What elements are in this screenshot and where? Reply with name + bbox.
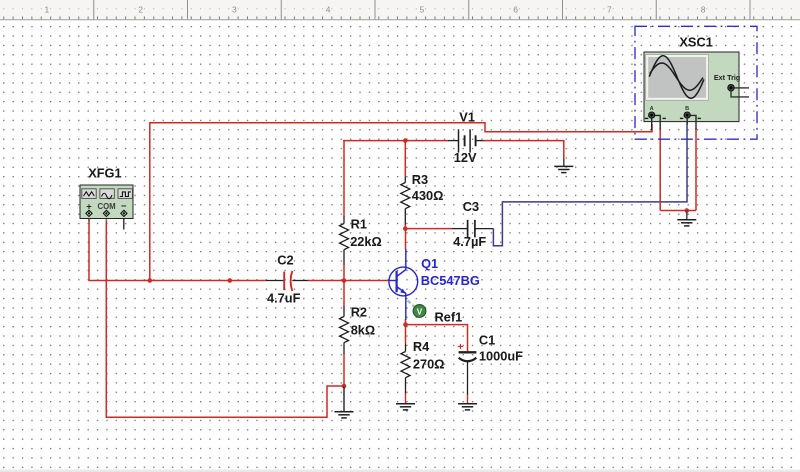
wire C1 to ground (467, 394, 469, 404)
ground V1 (554, 159, 573, 173)
value BC547BG (421, 273, 480, 288)
resistor R4 (401, 343, 410, 393)
svg-text:Q1: Q1 (421, 256, 438, 271)
ground R4 (396, 404, 415, 410)
label R4 (413, 339, 430, 354)
wire R4 top (405, 325, 407, 344)
wire emitter to junction (405, 319, 407, 325)
wire R1 bottom (343, 265, 345, 281)
svg-text:COM: COM (97, 202, 115, 211)
wire collector junction to C3 (405, 228, 452, 230)
probe Ref1 (voltage) (408, 301, 426, 318)
svg-text:C3: C3 (463, 199, 479, 214)
svg-text:R4: R4 (413, 339, 430, 354)
svg-text:B: B (685, 106, 689, 112)
svg-text:BC547BG: BC547BG (421, 273, 480, 288)
node junction (150,280.5) (148, 278, 153, 283)
label R1 (351, 217, 367, 232)
battery V1 (448, 129, 483, 152)
value 430ohm (412, 188, 444, 203)
svg-text:1: 1 (44, 5, 49, 15)
capacitor C2 (266, 271, 308, 291)
svg-text:4: 4 (326, 5, 331, 15)
pin XFG1 + stub (88, 216, 90, 221)
svg-text:C2: C2 (277, 252, 293, 267)
label R2 (351, 305, 367, 320)
value 4.7uF C3 (453, 234, 486, 249)
wire XFG1 - stub (123, 216, 125, 229)
svg-text:8: 8 (701, 5, 706, 15)
wire V1 row (343, 140, 448, 142)
function generator XFG1 (80, 185, 133, 219)
node junction base (344,280.5) (342, 278, 347, 283)
wire base row C2 to Q1 (308, 280, 390, 282)
svg-text:A: A (650, 106, 654, 112)
value 4.7uF C2 (267, 290, 301, 305)
value 1000uF (479, 348, 523, 363)
node junction R2 gnd (344,386) (342, 384, 347, 389)
wire C3 to scope B (blue) (493, 123, 687, 246)
capacitor C1 (polarized) (457, 341, 476, 395)
svg-text:5: 5 (419, 5, 424, 15)
svg-text:12V: 12V (454, 150, 477, 165)
label XFG1 (88, 165, 121, 180)
label C1 (479, 332, 495, 347)
svg-text:7: 7 (607, 5, 612, 15)
ground C1 (458, 404, 477, 410)
wire C2 input row (88, 280, 265, 282)
label V1 (459, 109, 475, 124)
svg-text:22kΩ: 22kΩ (350, 234, 382, 249)
wire R2 top (343, 281, 345, 307)
wire R3 top (404, 141, 406, 177)
wire scope B- down (695, 128, 697, 211)
svg-text:8kΩ: 8kΩ (351, 323, 376, 338)
label Q1 (421, 256, 438, 271)
resistor R2 (340, 306, 349, 353)
svg-text:2: 2 (138, 5, 143, 15)
svg-text:Ref1: Ref1 (435, 310, 463, 325)
resistor R1 (340, 217, 349, 265)
wire rail up to scope A (150, 123, 652, 281)
wire emitter junction to C1 (406, 325, 468, 352)
node junction scope gnd (686.8,210.5) (685, 208, 690, 213)
wire R1 top (343, 140, 345, 217)
wire scope A- down (659, 128, 661, 211)
wire V1 to ground (483, 141, 564, 159)
svg-text:XFG1: XFG1 (88, 165, 121, 180)
ground scope (677, 211, 696, 226)
svg-text:+: + (457, 341, 463, 353)
node junction (405.3,140.6) (403, 138, 408, 143)
svg-text:−: − (121, 200, 127, 211)
svg-text:1000uF: 1000uF (479, 348, 523, 363)
wire XFG1 + down (88, 221, 90, 281)
svg-text:C1: C1 (479, 332, 495, 347)
label Ref1 (435, 310, 463, 325)
svg-text:430Ω: 430Ω (412, 188, 444, 203)
label C2 (277, 252, 293, 267)
svg-text:V1: V1 (459, 109, 475, 124)
node junction (230,280.5) (228, 278, 233, 283)
transistor Q1 BC547BG (389, 249, 418, 320)
ruler (0, 0, 800, 20)
svg-text:XSC1: XSC1 (679, 35, 712, 50)
scope selection dashed box XSC1 (635, 26, 757, 139)
wire R3 bottom (404, 224, 406, 228)
node junction collector (405.3,228.6) (403, 226, 408, 231)
resistor R3 (401, 176, 410, 224)
value 270ohm (413, 356, 445, 371)
node junction emitter (405.5,324.6) (403, 322, 408, 327)
label R3 (412, 172, 428, 187)
wire XFG1 COM down and to R2 ground (106, 221, 344, 417)
wire scope minus row (660, 210, 696, 212)
wire R4 to ground (405, 393, 407, 404)
value 12V (454, 150, 477, 165)
svg-text:270Ω: 270Ω (413, 356, 445, 371)
wire R2 bottom (343, 353, 345, 386)
label XSC1 (679, 35, 712, 50)
value 22kohm (350, 234, 382, 249)
svg-text:R3: R3 (412, 172, 428, 187)
svg-text:4.7uF: 4.7uF (267, 290, 301, 305)
pin XFG1 COM stub (105, 216, 107, 221)
value 8kohm (351, 323, 376, 338)
svg-text:6: 6 (513, 5, 518, 15)
svg-text:3: 3 (232, 5, 237, 15)
svg-text:R2: R2 (351, 305, 367, 320)
oscilloscope XSC1 (644, 52, 749, 131)
ground R2 (335, 387, 354, 418)
svg-text:V: V (417, 307, 423, 316)
svg-text:4.7µF: 4.7µF (453, 234, 486, 249)
capacitor C3 (452, 220, 493, 238)
label C3 (463, 199, 479, 214)
wire collector down to Q1 (405, 229, 407, 249)
svg-text:R1: R1 (351, 217, 367, 232)
svg-text:Ext Trig: Ext Trig (714, 73, 740, 82)
bottom scrollbar strip (0, 470, 800, 472)
